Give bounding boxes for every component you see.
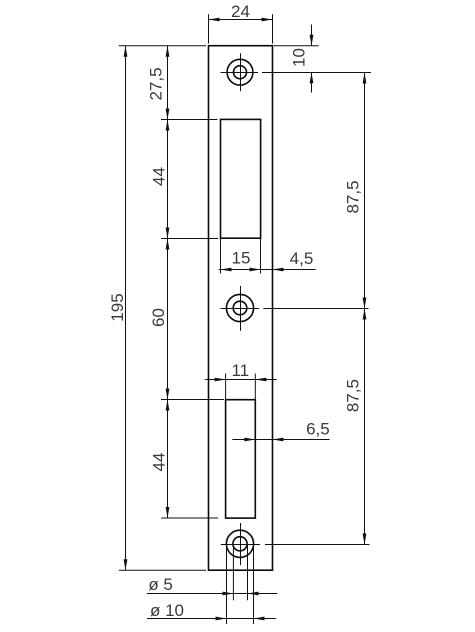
diameter 10 extension lines	[227, 544, 254, 624]
upper cutout rectangle	[221, 119, 261, 238]
middle hole centerline extension to right	[263, 308, 368, 310]
dimension 195 (overall height)	[108, 46, 206, 571]
lower cutout rectangle	[226, 400, 256, 518]
svg-text:6,5: 6,5	[306, 420, 330, 439]
top hole centerline extension to right	[262, 72, 371, 74]
svg-text:11: 11	[231, 361, 249, 380]
svg-text:27,5: 27,5	[147, 67, 166, 100]
diameter 5 extension lines	[233, 544, 247, 600]
svg-text:44: 44	[150, 453, 169, 472]
svg-text:24: 24	[231, 2, 250, 21]
svg-text:44: 44	[150, 167, 169, 186]
dimension 60 (between cutouts)	[149, 239, 224, 400]
top hole	[221, 53, 259, 91]
svg-text:87,5: 87,5	[344, 379, 363, 412]
dimension diameter 10	[147, 601, 276, 620]
svg-text:4,5: 4,5	[290, 249, 314, 268]
bottom hole centerline extension to right	[265, 544, 370, 546]
dimension 44 (lower cutout height)	[150, 400, 219, 519]
dimension 24 (top width)	[209, 2, 273, 44]
dimension 15 and 4,5 line	[219, 239, 316, 274]
dimension 87,5 (top hole to middle hole)	[344, 73, 367, 309]
svg-text:87,5: 87,5	[344, 180, 363, 213]
dimension 10 (top hole offset)	[274, 25, 319, 93]
left dimension column line (27,5 / 44 / 60 / 44)	[167, 46, 169, 518]
dimension 4,5 (cutout edge to plate edge)	[273, 249, 314, 271]
svg-text:ø 5: ø 5	[148, 575, 173, 594]
dimension 6,5 (cutout to plate edge)	[232, 420, 329, 442]
svg-text:195: 195	[108, 293, 127, 321]
right dimension column line (87,5 / 87,5)	[364, 73, 366, 545]
bottom hole	[221, 523, 260, 565]
middle hole	[221, 286, 260, 331]
svg-text:10: 10	[290, 48, 309, 67]
svg-text:60: 60	[149, 308, 168, 327]
dimension 11 (lower cutout width)	[205, 361, 277, 400]
dimension 87,5 (middle hole to bottom hole)	[344, 309, 367, 545]
dimension diameter 5	[147, 575, 278, 595]
dimension 44 (upper cutout height)	[150, 120, 219, 239]
dimension 15 (upper cutout width)	[221, 249, 261, 272]
dimension 27,5 (top to upper cutout)	[147, 46, 218, 120]
svg-text:15: 15	[232, 249, 251, 268]
plate outline	[209, 46, 273, 571]
svg-text:ø 10: ø 10	[150, 601, 184, 620]
